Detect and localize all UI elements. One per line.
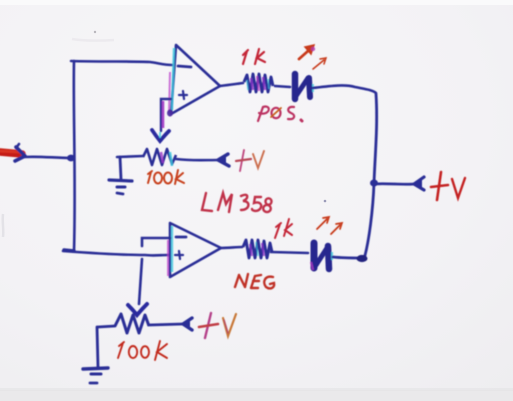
- label 1k (R2): [243, 49, 265, 64]
- wire U1 plus-input hook down to R1 wiper: [161, 99, 171, 131]
- wire bus to U2 non-inverting input: [63, 251, 168, 255]
- wire junction to +V connector: [374, 182, 414, 185]
- potentiometer R1 100k: [117, 149, 176, 179]
- wire down to R3 wiper: [139, 259, 142, 304]
- wire input to bus: [24, 157, 71, 158]
- wire U2 inverting-input hook: [142, 238, 170, 246]
- resistor R4 1k: [243, 240, 272, 258]
- label 1k (R4): [275, 219, 292, 238]
- wire D1 to right bus corner: [313, 85, 376, 93]
- label 100k (pot R1): [148, 170, 184, 184]
- label LM358: [202, 193, 272, 212]
- wire R2 to D1: [275, 86, 290, 87]
- wire D2 to right bus: [333, 257, 361, 258]
- resistor R2 1k: [244, 74, 273, 92]
- wire right bus vertical: [364, 94, 377, 259]
- ground (pot R1): [109, 180, 132, 194]
- potentiometer R3 100K: [97, 314, 149, 367]
- label 100 K (pot R3): [118, 341, 167, 360]
- wire R4 to D2: [271, 252, 308, 253]
- LED D1: [295, 74, 313, 99]
- op-amp U1: [167, 45, 220, 117]
- LED D2: [311, 243, 332, 270]
- op-amp U2: [168, 223, 221, 277]
- input arrowhead: [15, 147, 25, 161]
- D1 light arrows: [299, 45, 326, 69]
- label +V (right): [431, 172, 465, 200]
- label +V (pot R3): [199, 313, 236, 338]
- signal input (red): [0, 152, 22, 154]
- label +V (pot R1): [236, 150, 264, 171]
- wire R1 to +V connector: [176, 159, 219, 160]
- wire R3 to +V connector: [149, 324, 183, 325]
- wire U2 output to R4: [221, 247, 242, 248]
- wire U1 output to R2: [220, 83, 243, 86]
- label POS.: [258, 107, 302, 121]
- D2 light arrows: [317, 217, 342, 234]
- node input junction: [67, 155, 75, 162]
- ground (pot R3): [83, 368, 108, 383]
- label NEG: [235, 274, 274, 288]
- node right bus junction: [370, 180, 378, 187]
- wire left bus vertical: [72, 61, 76, 251]
- wire bus to U1 inverting input: [71, 61, 172, 65]
